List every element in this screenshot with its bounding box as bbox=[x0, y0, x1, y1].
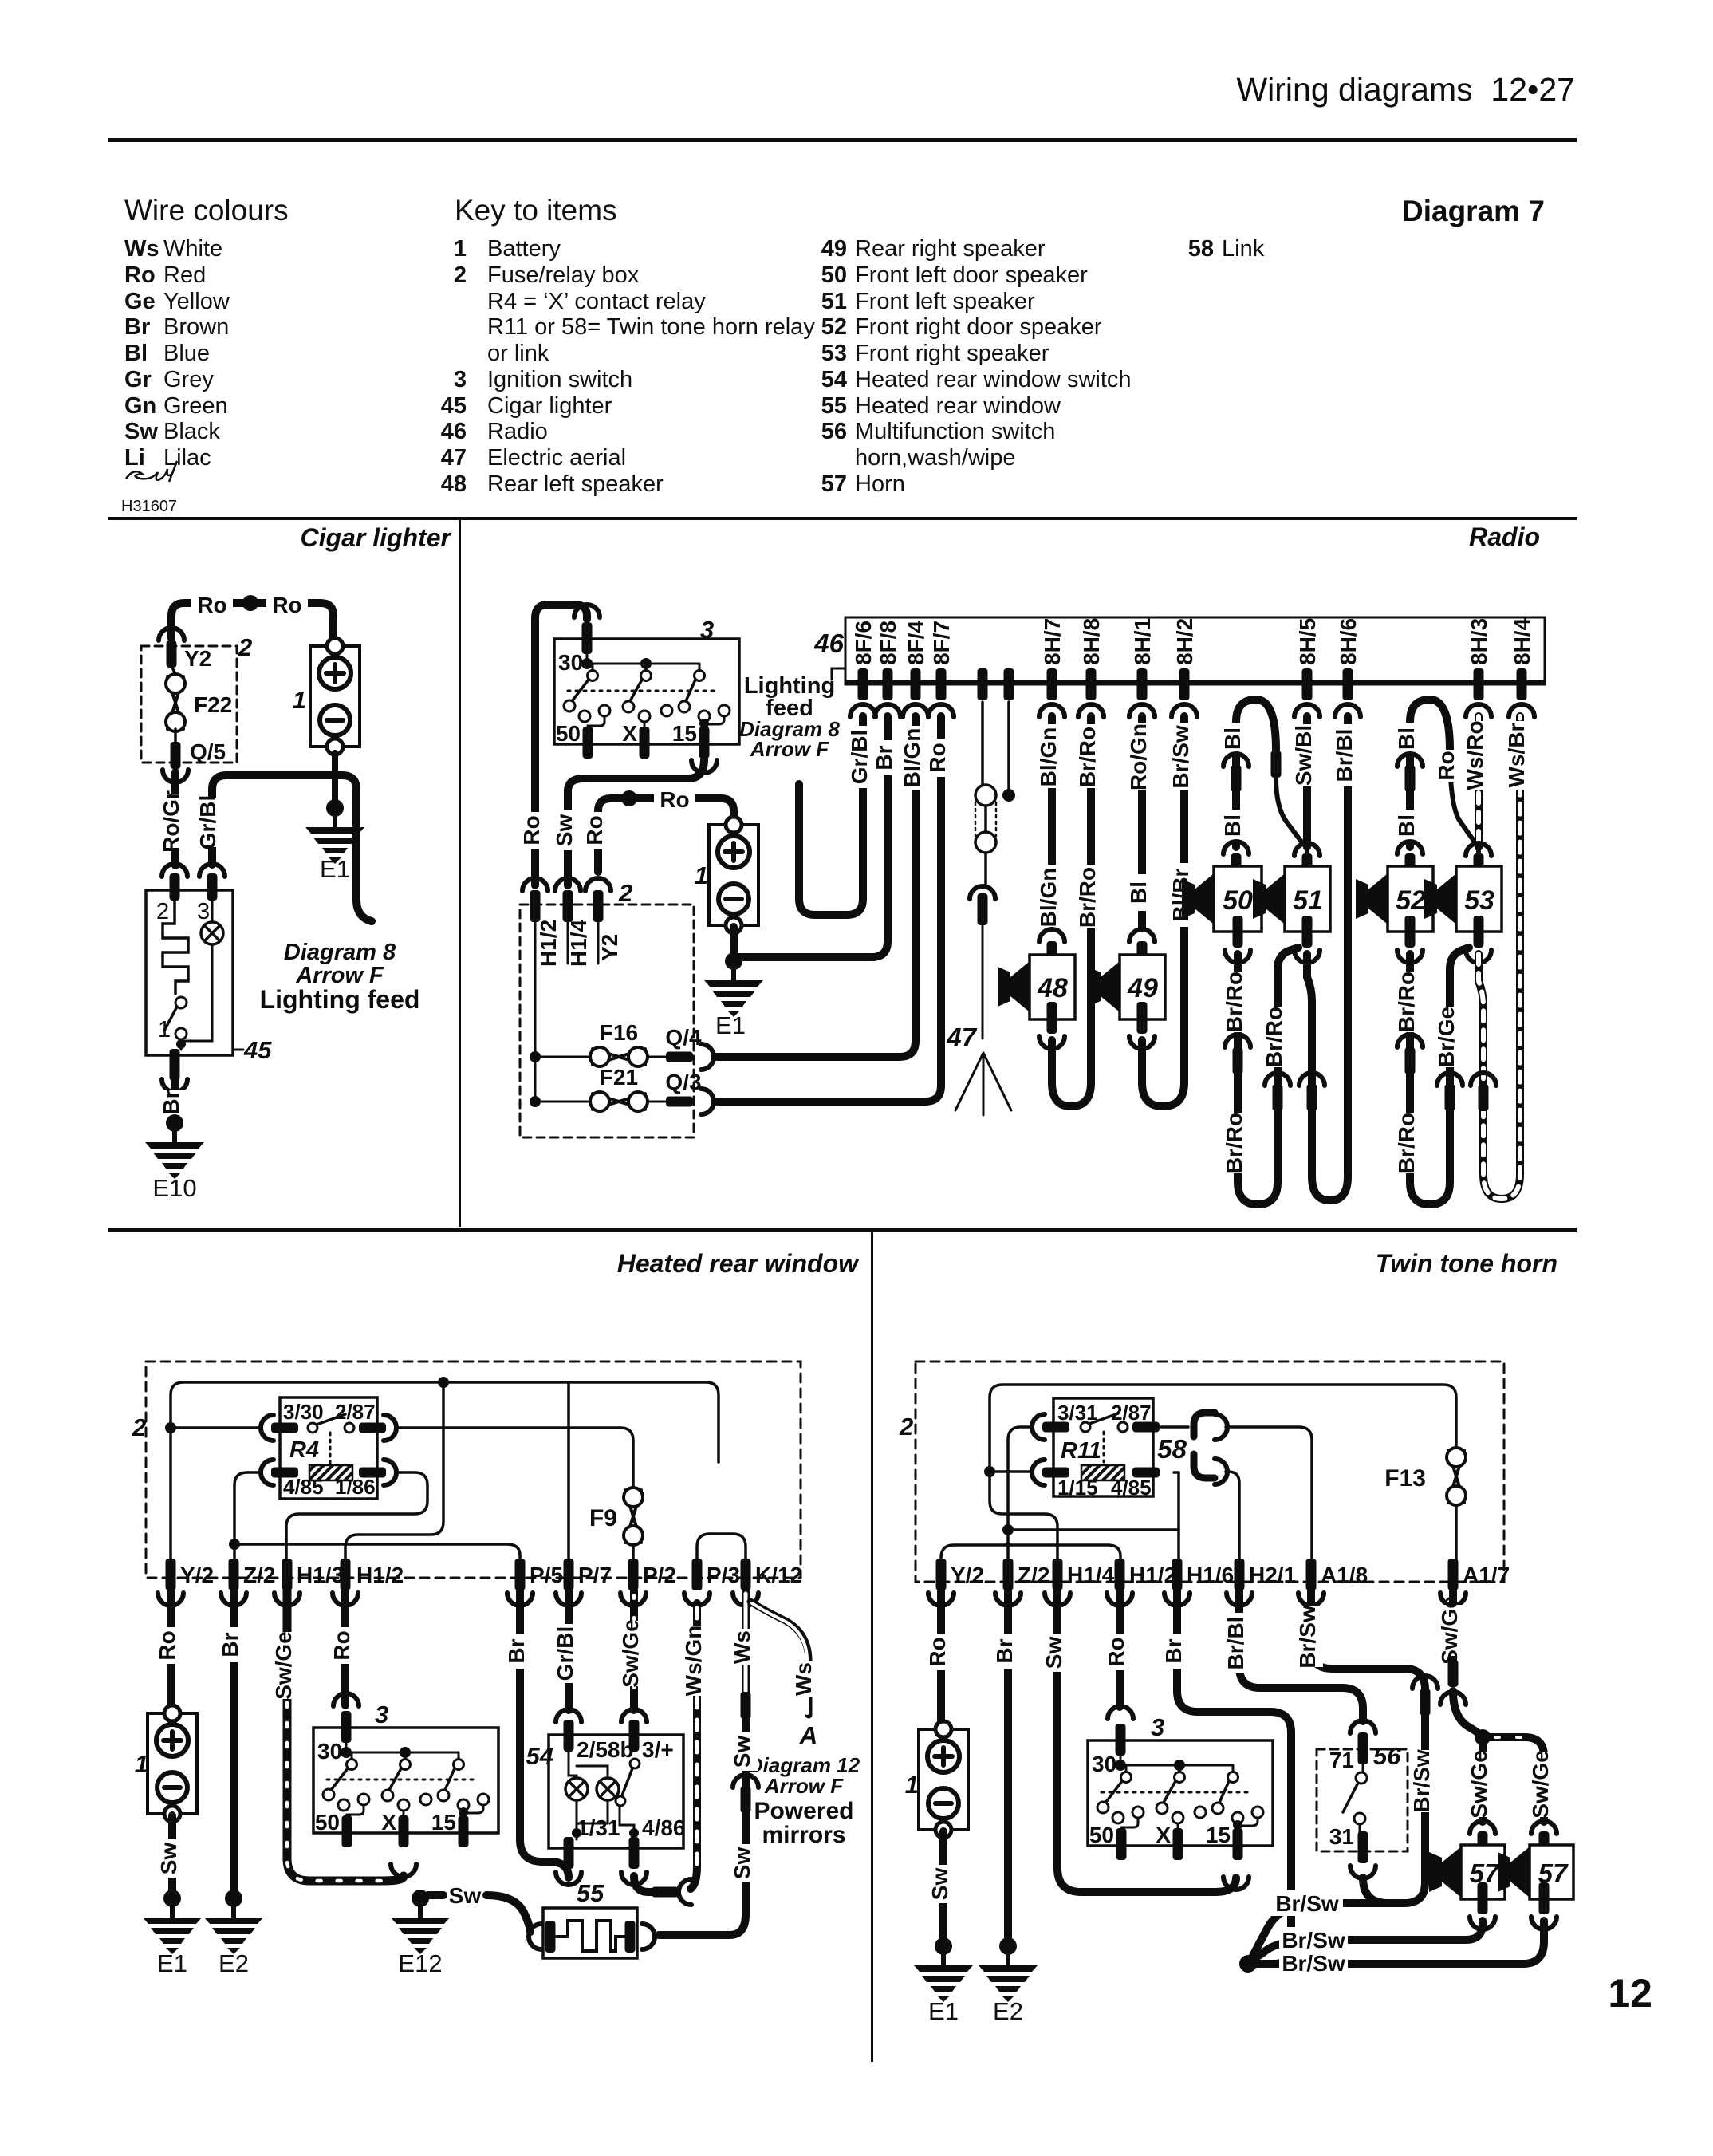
svg-text:Black: Black bbox=[163, 419, 220, 444]
node junction on feed wire bbox=[242, 595, 258, 611]
svg-text:E10: E10 bbox=[152, 1174, 196, 1202]
svg-text:Yellow: Yellow bbox=[163, 289, 230, 314]
svg-text:50: 50 bbox=[1223, 885, 1253, 916]
wire label Br/Sw on rail 1 bbox=[1271, 1890, 1343, 1916]
wire battery to E1 bbox=[168, 1815, 176, 1890]
svg-text:Q/3: Q/3 bbox=[665, 1070, 701, 1094]
connector below Q/5 bbox=[163, 770, 188, 782]
wire 56/31 to Br/Sw rail bbox=[1363, 1878, 1388, 1903]
svg-text:Wire colours: Wire colours bbox=[124, 194, 289, 227]
svg-text:Q/5: Q/5 bbox=[190, 739, 226, 764]
svg-text:1: 1 bbox=[695, 861, 708, 889]
svg-text:48: 48 bbox=[1037, 973, 1068, 1003]
terminal Y/2 bbox=[936, 1559, 947, 1590]
svg-text:E1: E1 bbox=[157, 1949, 187, 1977]
svg-text:Lilac: Lilac bbox=[163, 445, 211, 471]
svg-text:Ro: Ro bbox=[1104, 1637, 1128, 1666]
svg-text:P/7: P/7 bbox=[578, 1563, 612, 1587]
wire 4/86 to P/3 (Ws/Gn) bbox=[634, 1876, 654, 1892]
wire 58 lower to H2/1 bbox=[1226, 1472, 1239, 1563]
svg-text:Y2: Y2 bbox=[597, 934, 622, 961]
svg-text:R4: R4 bbox=[289, 1437, 319, 1463]
svg-text:H1/2: H1/2 bbox=[536, 920, 561, 967]
svg-text:K/12: K/12 bbox=[755, 1563, 802, 1587]
svg-text:8F/6: 8F/6 bbox=[851, 621, 876, 665]
loop wire over speakers 52/53 bbox=[1410, 700, 1450, 847]
svg-text:H1/4: H1/4 bbox=[1067, 1563, 1115, 1587]
rear left speaker 48 bbox=[1030, 955, 1075, 1019]
svg-text:Br/Ro: Br/Ro bbox=[1394, 972, 1419, 1032]
svg-text:Electric aerial: Electric aerial bbox=[487, 445, 626, 471]
wire A1/8 Br/Sw down right side bbox=[1250, 1590, 1425, 1961]
svg-text:Br/Bl: Br/Bl bbox=[1223, 1617, 1248, 1670]
wire 8H/1 into speaker 49 bbox=[1138, 716, 1146, 927]
relay R4 bbox=[280, 1397, 377, 1499]
svg-text:Bl: Bl bbox=[1394, 814, 1419, 837]
mid rule bbox=[108, 1228, 1577, 1232]
fuse F9 bbox=[624, 1488, 643, 1545]
wire Bl/Gn Q/4 to 8F/4 bbox=[715, 716, 916, 1057]
svg-text:Br: Br bbox=[218, 1632, 242, 1657]
svg-text:3: 3 bbox=[454, 367, 467, 392]
wire Y2 to fuse bbox=[172, 668, 175, 674]
svg-text:Arrow F: Arrow F bbox=[764, 1774, 844, 1798]
svg-text:Key to items: Key to items bbox=[455, 194, 617, 227]
svg-text:A1/7: A1/7 bbox=[1463, 1563, 1510, 1587]
svg-text:1: 1 bbox=[454, 236, 467, 262]
svg-text:8H/6: 8H/6 bbox=[1336, 618, 1361, 665]
svg-text:53: 53 bbox=[821, 341, 847, 366]
pin 8H/8 bbox=[1086, 668, 1097, 700]
fuse F22 bbox=[166, 674, 185, 731]
wire to horn 1 bbox=[1479, 1737, 1487, 1822]
svg-text:Ro: Ro bbox=[925, 743, 950, 772]
svg-text:8H/7: 8H/7 bbox=[1040, 618, 1065, 665]
svg-text:1: 1 bbox=[135, 1750, 148, 1778]
svg-text:F16: F16 bbox=[600, 1020, 638, 1045]
svg-text:Bl/Gn: Bl/Gn bbox=[900, 728, 924, 788]
svg-text:51: 51 bbox=[821, 289, 847, 314]
svg-text:55: 55 bbox=[821, 393, 847, 419]
connector into fuse box Y2 bbox=[159, 628, 184, 640]
wire 52 bottom loop bbox=[1410, 948, 1469, 1204]
svg-text:2: 2 bbox=[618, 879, 632, 907]
svg-text:Ro: Ro bbox=[197, 593, 226, 617]
second rule bbox=[108, 517, 1577, 520]
svg-text:R11: R11 bbox=[1061, 1438, 1101, 1464]
wire Y/2 Ro to battery bbox=[937, 1590, 945, 1728]
svg-text:46: 46 bbox=[813, 629, 844, 658]
svg-text:Bl/Gn: Bl/Gn bbox=[1036, 727, 1061, 787]
svg-text:Sw: Sw bbox=[730, 1847, 754, 1880]
heated rear window switch 54 bbox=[556, 1709, 581, 1722]
svg-text:F22: F22 bbox=[194, 692, 232, 717]
svg-text:52: 52 bbox=[1396, 885, 1426, 916]
svg-text:mirrors: mirrors bbox=[762, 1822, 845, 1848]
connector H1/4 bbox=[555, 878, 581, 891]
svg-text:Li: Li bbox=[124, 445, 145, 471]
wire to R4 3/30 bbox=[171, 1426, 262, 1429]
wire to R11 1/15 bbox=[990, 1470, 1032, 1473]
wire label Br (8F/8 to battery minus drawn above) bbox=[876, 740, 900, 775]
wire branch to H1/6 bbox=[1008, 1472, 1179, 1563]
svg-text:Grey: Grey bbox=[163, 367, 214, 392]
front right door speaker 52 bbox=[1388, 866, 1433, 932]
wire R4 4/85 to Z/2 bbox=[234, 1472, 262, 1563]
svg-text:Br/Ro: Br/Ro bbox=[1222, 1113, 1246, 1173]
terminal H1/3 bbox=[282, 1559, 293, 1590]
wire H1/3 Sw/Ge beaded to ignition X bbox=[287, 1590, 404, 1881]
svg-text:2: 2 bbox=[132, 1413, 146, 1441]
svg-text:Ws: Ws bbox=[124, 236, 159, 262]
wire Sw from K/12 to element 55 bbox=[741, 1692, 751, 1719]
svg-text:P/5: P/5 bbox=[530, 1563, 563, 1587]
terminal A1/8 bbox=[1306, 1559, 1317, 1590]
wire 49 to 8H/2 (Br/Sw) bbox=[1142, 716, 1184, 1106]
node junction above horns bbox=[1475, 1729, 1491, 1745]
junction of ground rails bbox=[1239, 1955, 1257, 1973]
svg-text:2: 2 bbox=[899, 1413, 913, 1441]
wire H1/2 Ro to ignition 30 bbox=[1116, 1590, 1124, 1707]
svg-text:Ro/Gn: Ro/Gn bbox=[1126, 723, 1151, 790]
svg-text:Br/Bl: Br/Bl bbox=[1332, 729, 1357, 782]
wire A1/7 Sw/Ge to horns bbox=[1449, 1590, 1457, 1662]
svg-text:55: 55 bbox=[577, 1879, 604, 1907]
wire P/7 riser bbox=[567, 1382, 570, 1563]
svg-text:Lighting feed: Lighting feed bbox=[260, 985, 420, 1014]
wire P/5 Br to switch 1/31 bbox=[520, 1590, 569, 1878]
pin 8H/2 bbox=[1179, 668, 1190, 700]
wire branch to horn 2 bbox=[1483, 1737, 1544, 1822]
wire Br to ground bbox=[171, 1080, 179, 1117]
svg-text:H31607: H31607 bbox=[121, 498, 177, 515]
svg-text:E1: E1 bbox=[715, 1011, 746, 1039]
svg-text:Sw/Ge: Sw/Ge bbox=[1437, 1596, 1462, 1665]
wire battery minus to ground bbox=[332, 753, 338, 802]
svg-text:Front right speaker: Front right speaker bbox=[855, 341, 1049, 366]
wire K/12 Ws down bbox=[742, 1590, 750, 1693]
top rule bbox=[108, 138, 1577, 142]
svg-text:50: 50 bbox=[821, 262, 847, 288]
wire rail to H1/2 bbox=[345, 1382, 443, 1563]
svg-text:Br/Sw: Br/Sw bbox=[1282, 1951, 1345, 1976]
horn 57 (right) bbox=[1530, 1845, 1573, 1899]
pin 8H/1 bbox=[1137, 668, 1148, 700]
svg-text:Sw: Sw bbox=[449, 1883, 482, 1908]
svg-text:Ws: Ws bbox=[791, 1662, 816, 1696]
wire Y2 up to Ro feed and battery bbox=[598, 798, 734, 872]
connector H1/2 bbox=[522, 878, 548, 891]
svg-text:Bl: Bl bbox=[124, 341, 148, 366]
svg-text:Brown: Brown bbox=[163, 314, 229, 340]
wire fuse to Q/5 bbox=[174, 729, 177, 742]
heated rear window element 55 bbox=[529, 1924, 541, 1949]
wire P/2 Sw/Ge to switch 3/+ bbox=[630, 1590, 638, 1710]
svg-text:A: A bbox=[799, 1721, 817, 1749]
component number 45 bbox=[233, 1049, 243, 1051]
terminal H1/2 bbox=[1115, 1559, 1125, 1590]
pin 8H/7 bbox=[1047, 668, 1057, 700]
pin 8F/4 bbox=[911, 668, 921, 700]
svg-text:or link: or link bbox=[487, 341, 549, 366]
svg-text:3/30: 3/30 bbox=[283, 1400, 324, 1424]
wire 50 bottom loop to 51 bbox=[1238, 948, 1298, 1204]
svg-text:P/3: P/3 bbox=[707, 1563, 740, 1587]
svg-text:Br/Sw: Br/Sw bbox=[1275, 1891, 1339, 1916]
svg-text:Z/2: Z/2 bbox=[243, 1563, 275, 1587]
svg-text:Br: Br bbox=[124, 314, 150, 340]
svg-text:Sw/Ge: Sw/Ge bbox=[618, 1619, 643, 1688]
svg-text:Sw: Sw bbox=[552, 814, 577, 847]
relay R11 bbox=[1053, 1398, 1153, 1496]
svg-text:Y/2: Y/2 bbox=[951, 1563, 984, 1587]
svg-text:Sw/Ge: Sw/Ge bbox=[1467, 1750, 1491, 1819]
svg-text:3/+: 3/+ bbox=[642, 1737, 674, 1762]
battery 1 bbox=[148, 1705, 197, 1822]
svg-text:Sw: Sw bbox=[927, 1868, 952, 1901]
wire Z/2 Br to E2 bbox=[230, 1590, 238, 1890]
terminal A1/7 bbox=[1448, 1559, 1459, 1590]
wire Z/2 riser to R11 3/31 bbox=[1008, 1427, 1032, 1563]
svg-text:45: 45 bbox=[441, 393, 467, 419]
svg-text:Ws/Gn: Ws/Gn bbox=[681, 1626, 706, 1697]
svg-text:E1: E1 bbox=[928, 1997, 959, 2025]
svg-text:H1/2: H1/2 bbox=[1129, 1563, 1176, 1587]
svg-text:Br/Ro: Br/Ro bbox=[1394, 1113, 1419, 1173]
svg-text:F21: F21 bbox=[600, 1065, 638, 1090]
svg-text:Sw: Sw bbox=[730, 1736, 754, 1768]
fuse/relay box 2 (dashed) bbox=[141, 646, 237, 763]
wire 53 bottom loop to 8H/4 (Ws/Br striped) bbox=[1479, 716, 1520, 1199]
wire H1/4 Sw to ignition 15 bbox=[1057, 1590, 1236, 1892]
wire H1/6 Br to junction bbox=[1177, 1590, 1291, 1964]
svg-text:Br/Ge: Br/Ge bbox=[1434, 1007, 1459, 1067]
lighting feed note bbox=[832, 668, 845, 680]
svg-text:Bl: Bl bbox=[1220, 814, 1245, 837]
battery 1 bbox=[310, 638, 360, 755]
pin 8H/5 bbox=[1302, 668, 1313, 700]
svg-text:2: 2 bbox=[454, 262, 467, 288]
svg-text:Gr: Gr bbox=[124, 367, 152, 392]
svg-text:Arrow F: Arrow F bbox=[750, 737, 829, 761]
terminal P/2 bbox=[628, 1559, 639, 1590]
terminal P/5 bbox=[515, 1559, 526, 1590]
svg-text:Green: Green bbox=[163, 393, 228, 419]
ground E10 bbox=[145, 1114, 204, 1179]
ground E1 bbox=[143, 1890, 202, 1954]
svg-text:Ro: Ro bbox=[155, 1630, 179, 1660]
svg-text:H1/2: H1/2 bbox=[356, 1563, 404, 1587]
fuse/relay box 2 (dashed) bbox=[146, 1362, 801, 1578]
wire 8H/5 into 51 bbox=[1303, 716, 1311, 847]
svg-text:53: 53 bbox=[1464, 885, 1494, 916]
svg-text:H1/6: H1/6 bbox=[1187, 1563, 1234, 1587]
terminal H2/1 bbox=[1235, 1559, 1245, 1590]
node on Z/2 riser bbox=[229, 1539, 240, 1550]
pin 8F/7 bbox=[936, 668, 947, 700]
fuse box internal stubs bbox=[535, 920, 598, 1102]
terminal Y/2 bbox=[166, 1559, 176, 1590]
svg-text:8F/4: 8F/4 bbox=[904, 621, 928, 665]
cigar lighter 45 box bbox=[146, 890, 233, 1055]
svg-text:3/31: 3/31 bbox=[1057, 1401, 1098, 1425]
svg-text:71: 71 bbox=[1329, 1748, 1354, 1772]
svg-text:1/31: 1/31 bbox=[577, 1815, 620, 1840]
terminal Z/2 bbox=[1003, 1559, 1014, 1590]
svg-text:2/87: 2/87 bbox=[335, 1400, 376, 1424]
svg-text:Multifunction switch: Multifunction switch bbox=[855, 419, 1055, 444]
svg-text:Br/Sw: Br/Sw bbox=[1295, 1605, 1320, 1669]
svg-text:Front right door speaker: Front right door speaker bbox=[855, 314, 1102, 340]
wire ignition-15 to fuse box H1/4 bbox=[568, 759, 704, 885]
ground E2 bbox=[979, 1937, 1038, 2002]
svg-text:31: 31 bbox=[1329, 1824, 1354, 1849]
terminal P/3 bbox=[692, 1559, 703, 1590]
svg-text:Fuse/relay box: Fuse/relay box bbox=[487, 262, 640, 288]
pin 8H/6 bbox=[1343, 668, 1353, 700]
terminal H1/2 bbox=[341, 1559, 351, 1590]
svg-text:Ws/Br: Ws/Br bbox=[1504, 723, 1529, 787]
svg-text:F13: F13 bbox=[1384, 1465, 1426, 1492]
terminal H1/4 bbox=[1053, 1559, 1063, 1590]
svg-text:Sw/Bl: Sw/Bl bbox=[1291, 725, 1316, 786]
svg-text:Ro: Ro bbox=[519, 815, 544, 845]
svg-text:Ro: Ro bbox=[925, 1637, 950, 1666]
svg-text:Ge: Ge bbox=[124, 289, 156, 314]
svg-text:Br/Ro: Br/Ro bbox=[1222, 972, 1246, 1032]
svg-text:8H/3: 8H/3 bbox=[1467, 618, 1491, 665]
wire R4 2/87 to F9 bbox=[396, 1428, 633, 1487]
horn 57 (left) bbox=[1461, 1845, 1505, 1899]
ignition switch 3 bbox=[1088, 1706, 1273, 1860]
terminal Q/4 bbox=[666, 1052, 693, 1062]
svg-text:52: 52 bbox=[821, 314, 847, 340]
svg-text:Br: Br bbox=[1161, 1638, 1186, 1663]
svg-text:Diagram 7: Diagram 7 bbox=[1402, 195, 1545, 227]
wire H2/1 Br/Bl to switch 56 pin 71 bbox=[1239, 1590, 1363, 1721]
svg-text:Cigar lighter: Cigar lighter bbox=[487, 393, 612, 419]
wire horn2 to Br/Sw rail 3 bbox=[1248, 1921, 1544, 1964]
wire Y/2 up to top rail and stub bbox=[171, 1382, 719, 1563]
svg-text:Br/Ro: Br/Ro bbox=[1075, 727, 1100, 787]
svg-text:57: 57 bbox=[821, 471, 847, 497]
ground E1 bbox=[914, 1937, 973, 2002]
wire 2/87 via 58 to A1/8 bbox=[1161, 1427, 1312, 1563]
svg-text:8H/4: 8H/4 bbox=[1510, 617, 1534, 665]
svg-text:Gr/Bl: Gr/Bl bbox=[195, 795, 220, 849]
ground E2 bbox=[204, 1890, 263, 1954]
svg-text:Bl/Gn: Bl/Gn bbox=[1036, 868, 1061, 928]
node on Y/2 riser bbox=[165, 1422, 176, 1433]
svg-text:47: 47 bbox=[946, 1023, 977, 1052]
svg-text:H2/1: H2/1 bbox=[1249, 1563, 1296, 1587]
svg-text:3: 3 bbox=[1151, 1713, 1164, 1741]
signature + code bbox=[126, 461, 177, 482]
svg-text:Q/4: Q/4 bbox=[665, 1025, 702, 1050]
connector Y2 bbox=[585, 878, 611, 891]
svg-text:3: 3 bbox=[197, 899, 210, 924]
vertical divider top half bbox=[459, 520, 461, 1227]
ground E12 with Sw wire to element 55 bbox=[428, 1895, 530, 1932]
ignition switch 3 bbox=[313, 1693, 498, 1847]
svg-text:A1/8: A1/8 bbox=[1321, 1563, 1368, 1587]
svg-text:Rear right speaker: Rear right speaker bbox=[855, 236, 1046, 262]
svg-text:Sw/Ge: Sw/Ge bbox=[1528, 1750, 1553, 1819]
svg-text:E12: E12 bbox=[398, 1949, 442, 1977]
terminal Q/3 bbox=[666, 1097, 693, 1107]
svg-text:8H/2: 8H/2 bbox=[1172, 618, 1197, 665]
connector below 45 bbox=[162, 1079, 187, 1092]
pin 8H/4 bbox=[1517, 668, 1527, 700]
svg-text:Br/Ro: Br/Ro bbox=[1075, 867, 1100, 928]
node on riser bbox=[984, 1466, 995, 1477]
svg-text:Ro: Ro bbox=[124, 262, 156, 288]
svg-text:47: 47 bbox=[441, 445, 467, 471]
svg-text:Ro: Ro bbox=[660, 787, 689, 812]
fuse F16 bbox=[535, 1056, 666, 1058]
svg-text:H1/4: H1/4 bbox=[566, 919, 591, 967]
svg-text:2: 2 bbox=[238, 633, 252, 661]
wire 8H/3 (Ws/Ro striped) into 53 bbox=[1475, 716, 1483, 847]
svg-text:Ws: Ws bbox=[730, 1630, 754, 1664]
svg-text:Sw/Ge: Sw/Ge bbox=[271, 1631, 296, 1700]
svg-text:Gr/Bl: Gr/Bl bbox=[847, 730, 872, 784]
svg-text:horn,wash/wipe: horn,wash/wipe bbox=[855, 445, 1016, 471]
wire ignition-30 feed from fuse box H1/2 bbox=[535, 605, 587, 885]
terminal Z/2 bbox=[229, 1559, 239, 1590]
svg-text:Br/Sw: Br/Sw bbox=[1168, 725, 1193, 789]
connector Gr/Bl into cigar lighter pin 3 bbox=[199, 864, 225, 877]
wire Ro Q/3 to 8F/7 bbox=[715, 716, 941, 1102]
wire branch to P/5 bbox=[234, 1544, 520, 1563]
svg-text:Powered: Powered bbox=[754, 1798, 853, 1824]
svg-text:46: 46 bbox=[441, 419, 467, 444]
svg-text:8H/8: 8H/8 bbox=[1079, 618, 1104, 665]
wire P/3 K/12 link bbox=[697, 1534, 746, 1563]
svg-text:Gn: Gn bbox=[124, 393, 156, 419]
front left speaker 51 bbox=[1285, 866, 1330, 932]
node on top rail bbox=[438, 1377, 449, 1388]
svg-text:Diagram 8: Diagram 8 bbox=[284, 940, 396, 965]
ground E1 (radio) bbox=[704, 952, 763, 1017]
bulb inside 45 bbox=[201, 922, 223, 944]
svg-text:Y/2: Y/2 bbox=[180, 1563, 214, 1587]
svg-text:3: 3 bbox=[375, 1701, 388, 1728]
svg-text:Front left door speaker: Front left door speaker bbox=[855, 262, 1088, 288]
wire Y/2 Ro to battery bbox=[167, 1590, 175, 1712]
svg-text:Wiring diagrams 12•27: Wiring diagrams 12•27 bbox=[1236, 71, 1575, 108]
svg-text:Radio: Radio bbox=[1469, 522, 1540, 551]
wire H1/4 riser to top rail and F13 bbox=[990, 1385, 1456, 1563]
svg-text:12: 12 bbox=[1608, 1971, 1652, 2016]
wire 48 to 8H/8 (Br/Ro) bbox=[1052, 716, 1091, 1106]
svg-text:58: 58 bbox=[1157, 1434, 1187, 1464]
svg-text:Rear left speaker: Rear left speaker bbox=[487, 471, 664, 497]
svg-text:R4 = ‘X’ contact relay: R4 = ‘X’ contact relay bbox=[487, 289, 706, 314]
svg-text:R11 or 58= Twin tone horn rela: R11 or 58= Twin tone horn relay bbox=[487, 314, 815, 340]
svg-text:Ro/Gr: Ro/Gr bbox=[159, 790, 183, 853]
svg-text:Battery: Battery bbox=[487, 236, 561, 262]
wire Y/2 to H1/2 bbox=[941, 1545, 1120, 1563]
svg-text:Link: Link bbox=[1222, 236, 1265, 262]
svg-text:1: 1 bbox=[905, 1771, 919, 1799]
svg-text:E2: E2 bbox=[219, 1949, 249, 1977]
front right speaker 53 bbox=[1456, 866, 1502, 932]
svg-text:Red: Red bbox=[163, 262, 206, 288]
svg-text:White: White bbox=[163, 236, 222, 262]
svg-text:2: 2 bbox=[156, 899, 169, 924]
multifunction switch 56 bbox=[1350, 1720, 1376, 1733]
